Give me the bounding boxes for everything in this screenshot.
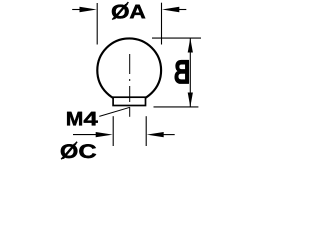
dim B bottom extension line [154, 106, 199, 108]
dim A left extension line [96, 3, 98, 45]
label M4 [67, 112, 97, 125]
dim A right arrow [162, 7, 186, 12]
label B [175, 60, 189, 83]
dim A right extension line [161, 3, 163, 45]
centerline [129, 54, 131, 117]
label ØA [112, 2, 145, 20]
dim A left arrow [72, 7, 97, 12]
dim B top extension line [152, 37, 201, 39]
dim B up arrow [188, 38, 193, 52]
dim B down arrow [188, 93, 193, 107]
dim C left arrow [73, 132, 113, 137]
dim C left extension line [112, 116, 114, 146]
dim C right extension line [145, 116, 147, 146]
label ØC [61, 142, 96, 160]
dim B line [189, 38, 191, 107]
dim C right arrow [147, 132, 175, 137]
neck [113, 97, 145, 105]
ball circle [97, 38, 161, 102]
M4 leader line [99, 107, 130, 116]
